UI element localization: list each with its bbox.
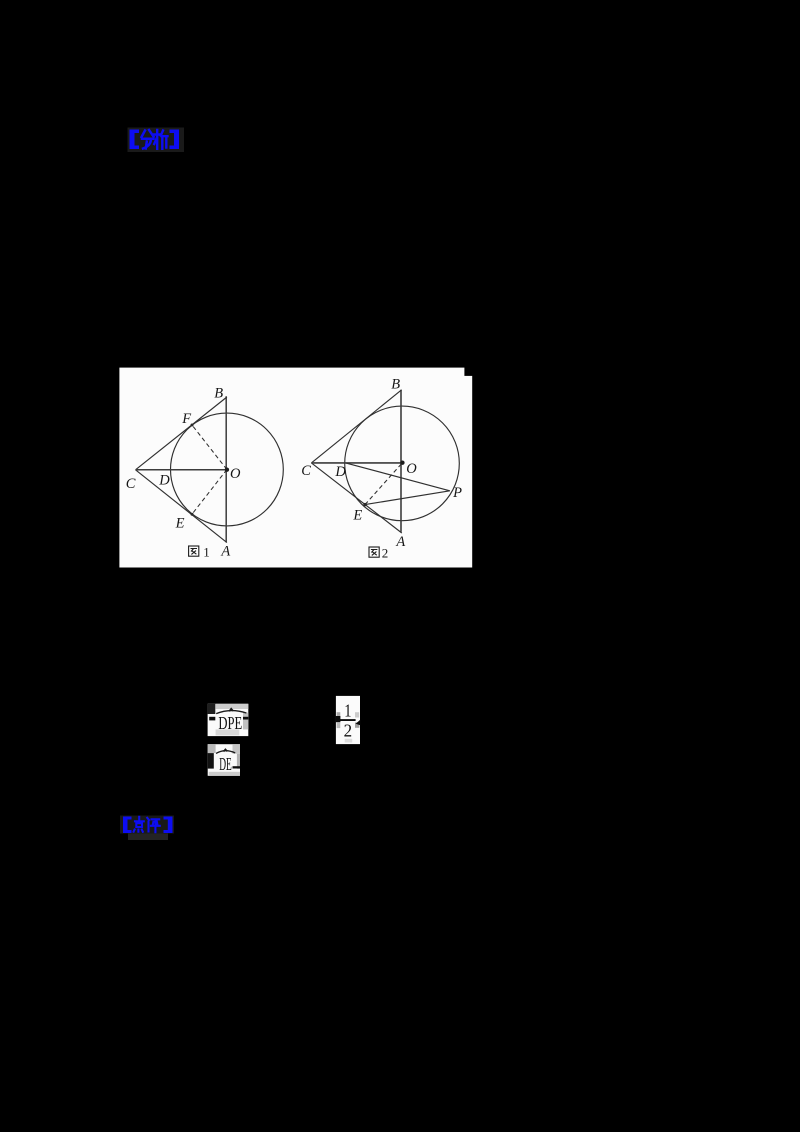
svg-text:B: B	[391, 377, 400, 393]
figure white panel (right sliver)	[464, 376, 472, 568]
svg-text:F: F	[181, 411, 191, 427]
svg-text:2: 2	[344, 721, 353, 741]
caption 图1	[189, 546, 199, 556]
svg-text:D: D	[334, 464, 346, 480]
dot E fig2	[363, 503, 366, 506]
svg-text:B: B	[214, 386, 223, 402]
dot E fig1	[191, 513, 194, 516]
svg-text:A: A	[395, 534, 405, 550]
svg-text:E: E	[352, 508, 362, 524]
svg-text:O: O	[406, 461, 417, 477]
labels fig2	[301, 377, 462, 550]
dashed E-O fig2	[365, 463, 402, 504]
dashed O-E fig1	[192, 470, 227, 515]
svg-text:D: D	[158, 472, 170, 488]
labels fig1	[126, 386, 241, 560]
line E-P fig2	[365, 491, 450, 505]
heading 2 blue text 【点评】	[123, 817, 173, 834]
caption 图2	[369, 547, 379, 557]
heading 2 background	[120, 816, 174, 834]
figure white panel (main)	[119, 368, 464, 568]
svg-text:O: O	[230, 466, 241, 482]
dashed O-F fig1	[192, 425, 227, 470]
heading 1 background	[128, 128, 185, 153]
svg-text:P: P	[452, 485, 462, 501]
line C-B fig1	[136, 397, 227, 470]
dot F fig1	[191, 424, 194, 427]
vertical line BA fig2	[400, 390, 402, 532]
heading 2 dark fragment below	[128, 834, 168, 841]
svg-text:1: 1	[203, 544, 210, 559]
svg-text:DPE: DPE	[218, 713, 242, 733]
heading 1 blue text 【分析】	[130, 130, 140, 150]
svg-text:E: E	[175, 515, 185, 531]
line D-P fig2	[346, 463, 450, 491]
dot O fig1	[225, 468, 229, 472]
line C-A fig1	[136, 470, 227, 543]
vertical line BA fig1	[225, 396, 227, 542]
svg-text:2: 2	[382, 545, 389, 560]
svg-text:C: C	[301, 463, 311, 479]
line C-B fig2	[311, 390, 401, 463]
svg-text:DE: DE	[219, 754, 232, 774]
line C-O fig2	[311, 462, 402, 464]
line C-O fig1	[136, 469, 228, 471]
circle O fig2	[345, 406, 460, 521]
line C-A fig2 (through E)	[311, 463, 401, 533]
svg-text:A: A	[220, 544, 230, 560]
svg-text:C: C	[126, 476, 136, 492]
dot O fig2	[400, 461, 404, 465]
svg-text:1: 1	[344, 701, 351, 721]
circle O fig1	[171, 413, 284, 526]
